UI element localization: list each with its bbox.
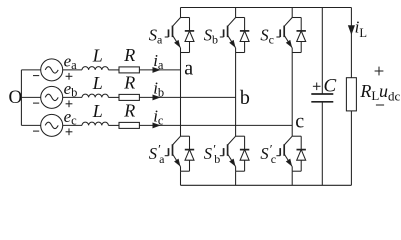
load current arrow i_L	[349, 26, 355, 34]
svg-text:L: L	[92, 73, 103, 93]
svg-text:udc: udc	[379, 81, 401, 104]
antiparallel diode of Sb'	[240, 136, 249, 171]
source e_b minus sign	[33, 102, 39, 104]
leg a top connection to rail	[180, 8, 182, 18]
svg-text:ic: ic	[153, 107, 164, 128]
current arrow i_a	[153, 68, 159, 72]
current arrow i_b	[153, 95, 159, 99]
wire source to inductor row b	[63, 96, 82, 98]
leg b mid wire	[235, 53, 237, 137]
antiparallel diode of Sa	[185, 18, 194, 53]
capacitor C	[311, 94, 333, 102]
svg-text:L: L	[92, 101, 103, 121]
svg-text:iL: iL	[355, 18, 367, 41]
gate of Sc	[276, 29, 280, 37]
antiparallel diode of Sb	[240, 18, 249, 53]
svg-text:b: b	[240, 87, 250, 109]
gate of Sb'	[220, 148, 224, 156]
resistor R row a	[119, 67, 139, 73]
svg-text:R: R	[123, 73, 135, 93]
svg-text:C: C	[324, 76, 337, 97]
wire bus to source ec	[21, 124, 40, 126]
svg-text:R: R	[123, 45, 135, 65]
svg-text:O: O	[9, 87, 23, 108]
svg-text:a: a	[184, 57, 193, 79]
svg-text:ib: ib	[153, 79, 164, 100]
svg-text:S: S	[149, 144, 157, 163]
transistor Sb' (lower IGBT leg b)	[228, 136, 245, 171]
load resistor R_L	[346, 78, 356, 111]
transistor Sb (upper IGBT leg b)	[228, 18, 245, 53]
svg-text:S: S	[260, 144, 268, 163]
u_dc plus sign	[375, 67, 384, 76]
capacitor plus sign	[313, 83, 321, 91]
antiparallel diode of Sc'	[297, 136, 306, 171]
leg a bottom connection to rail	[180, 171, 182, 185]
svg-text:eb: eb	[64, 79, 78, 100]
inductor L row b	[82, 94, 108, 97]
bottom rail (DC- bus)	[181, 184, 352, 186]
inductor L row a	[82, 67, 108, 70]
leg c top connection to rail	[291, 8, 293, 18]
svg-text:b: b	[214, 152, 220, 166]
svg-text:RL: RL	[359, 81, 379, 103]
wire resistor to node b (phase line)	[139, 96, 235, 98]
transistor Sc' (lower IGBT leg c)	[284, 136, 301, 171]
svg-text:S: S	[204, 144, 212, 163]
source e_b plus sign	[66, 100, 73, 107]
leg c mid wire	[291, 53, 293, 137]
AC source e_b	[41, 86, 63, 108]
svg-text:Sb: Sb	[204, 26, 218, 47]
svg-text:L: L	[92, 46, 103, 66]
label Sc'	[260, 142, 276, 166]
AC source e_c	[41, 114, 63, 136]
top rail (DC+ bus)	[181, 7, 352, 9]
gate of Sa	[165, 29, 169, 37]
label Sb'	[204, 142, 220, 166]
load bottom lead	[350, 111, 352, 185]
transistor Sa (upper IGBT leg a)	[173, 18, 190, 53]
capacitor C top lead	[321, 8, 323, 95]
antiparallel diode of Sc	[297, 18, 306, 53]
source e_a plus sign	[66, 73, 73, 80]
capacitor C bottom lead	[321, 102, 323, 186]
label Sa'	[149, 142, 165, 166]
svg-text:Sa: Sa	[149, 26, 163, 47]
wire inductor to resistor row a	[108, 69, 119, 71]
svg-text:Sc: Sc	[260, 26, 274, 47]
leg c bottom connection to rail	[291, 171, 293, 185]
svg-text:ia: ia	[153, 51, 164, 72]
gate of Sa'	[165, 148, 169, 156]
svg-text:ea: ea	[64, 52, 78, 73]
leg b bottom connection to rail	[235, 171, 237, 185]
wire source to inductor row c	[63, 124, 82, 126]
source e_a minus sign	[33, 75, 39, 77]
svg-text:c: c	[271, 152, 276, 166]
gate of Sc'	[276, 148, 280, 156]
wire source to inductor row a	[63, 69, 82, 71]
u_dc minus sign	[376, 104, 384, 106]
svg-text:ec: ec	[64, 107, 78, 128]
wire inductor to resistor row c	[108, 124, 119, 126]
leg a mid wire	[180, 53, 182, 137]
load top lead	[350, 8, 352, 78]
svg-text:a: a	[159, 152, 165, 166]
source e_c minus sign	[33, 130, 39, 132]
transistor Sc (upper IGBT leg c)	[284, 18, 301, 53]
resistor R row b	[119, 94, 139, 100]
resistor R row c	[119, 122, 139, 128]
wire bus to source eb	[21, 96, 40, 98]
wire resistor to node c (phase line)	[139, 124, 292, 126]
inductor L row c	[82, 122, 108, 125]
antiparallel diode of Sa'	[185, 136, 194, 171]
wire bus to source ea	[21, 69, 40, 71]
AC source e_a	[41, 59, 63, 81]
transistor Sa' (lower IGBT leg a)	[173, 136, 190, 171]
gate of Sb	[220, 29, 224, 37]
svg-text:c: c	[295, 111, 304, 133]
neutral bus wire	[20, 70, 22, 126]
wire inductor to resistor row b	[108, 96, 119, 98]
source e_c plus sign	[66, 128, 73, 135]
svg-text:R: R	[123, 101, 135, 121]
wire resistor to node a (phase line)	[139, 69, 180, 71]
current arrow i_c	[153, 123, 159, 127]
leg b top connection to rail	[235, 8, 237, 18]
